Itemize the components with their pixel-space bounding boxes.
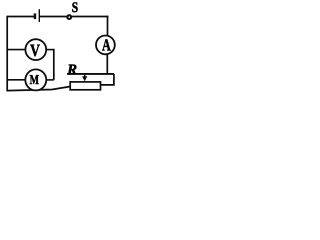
- wire right (top-right corner down to ammeter): [107, 16, 109, 36]
- rheostat slider arrow: [82, 74, 87, 81]
- switch S: [67, 15, 71, 19]
- wire left (top-left corner down to bottom-left corner): [6, 16, 8, 92]
- wire top left (battery to top-left corner): [7, 16, 34, 18]
- wire (voltmeter to right connector): [46, 49, 54, 51]
- svg-text:S: S: [72, 0, 78, 16]
- wire (connector to motor): [46, 79, 54, 81]
- wire (left wire to voltmeter): [7, 49, 25, 51]
- svg-text:M: M: [30, 72, 40, 87]
- svg-text:V: V: [30, 41, 40, 60]
- wire top (battery to top-right corner): [40, 16, 108, 18]
- rheostat R box: [70, 82, 100, 90]
- wire (bar right end down to box right terminal): [101, 74, 114, 85]
- motor M: [25, 69, 46, 90]
- svg-text:A: A: [102, 35, 111, 54]
- svg-text:R: R: [66, 62, 77, 78]
- wire connector (V to M vertical): [53, 49, 55, 80]
- voltmeter V: [25, 39, 46, 60]
- wire (ammeter to slider bar): [106, 54, 108, 74]
- battery: [34, 9, 40, 22]
- ammeter A: [96, 35, 115, 54]
- wire slider bar: [67, 73, 114, 75]
- wire bottom (bottom-left corner to box left terminal): [7, 87, 70, 91]
- wire (left wire to motor): [7, 79, 25, 81]
